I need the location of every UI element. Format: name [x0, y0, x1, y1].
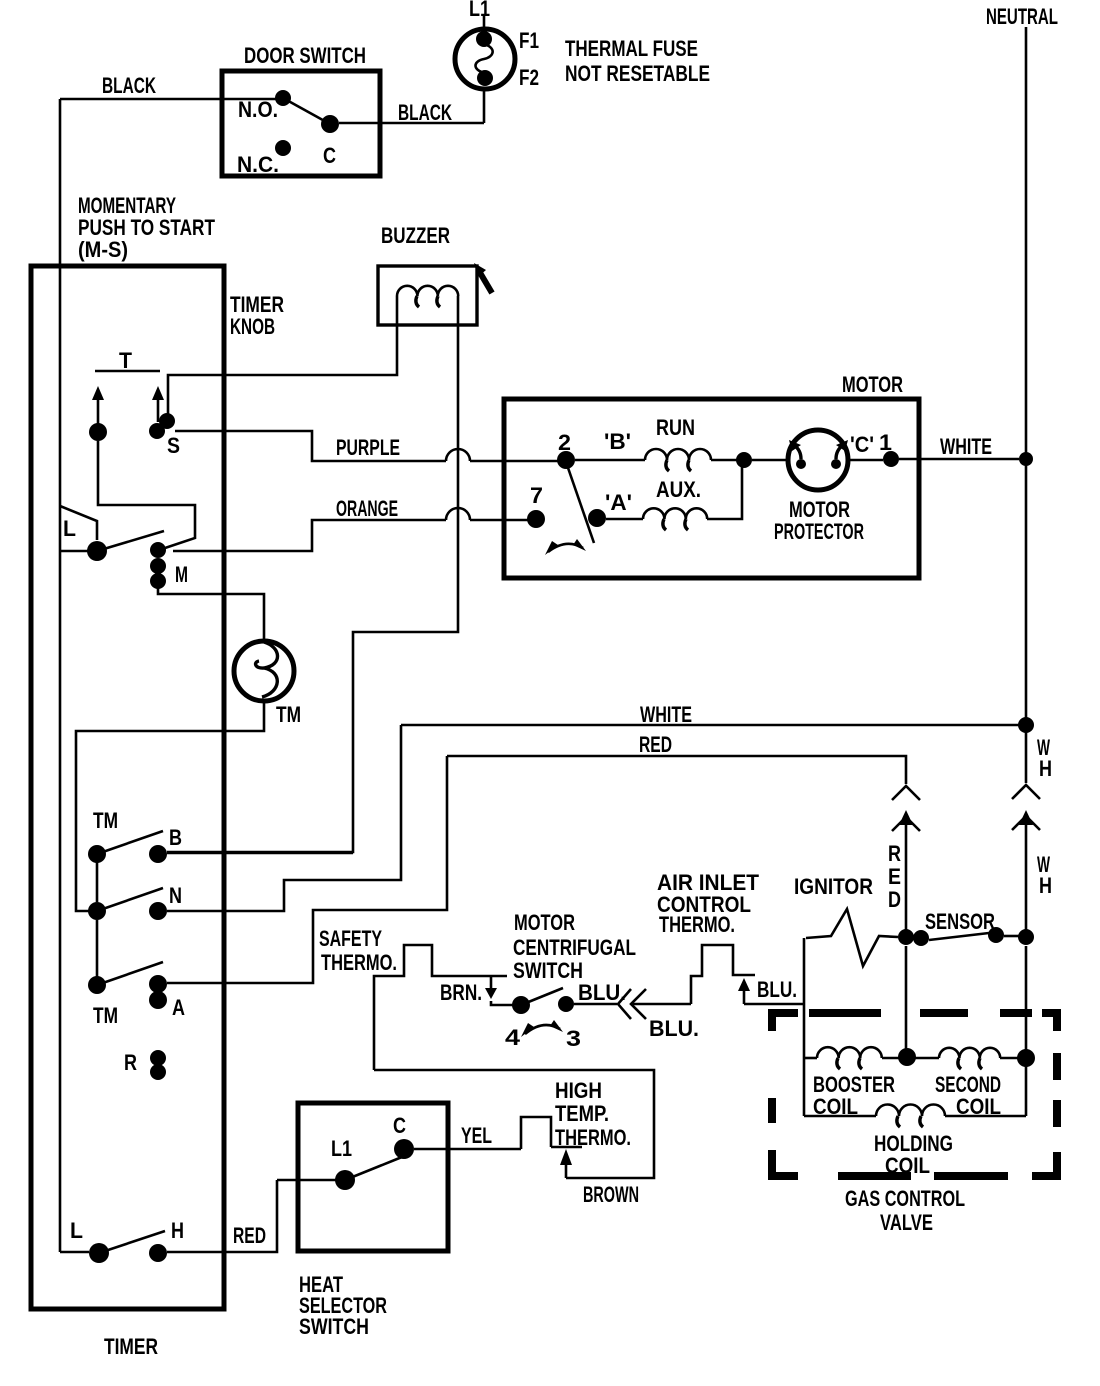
svg-text:1: 1 [879, 430, 892, 455]
connector arrow BRN down [490, 976, 493, 988]
svg-text:SWITCH: SWITCH [513, 958, 583, 983]
node valve junction RED [898, 1048, 916, 1066]
high temp thermostat [521, 1117, 582, 1149]
node L (timer bottom) [89, 1243, 109, 1263]
svg-text:C: C [393, 1113, 406, 1138]
wire purple to motor 2 [470, 460, 558, 463]
connector chevron RED upper [892, 786, 920, 800]
wire L stub bottom [60, 1251, 89, 1254]
svg-text:BUZZER: BUZZER [381, 223, 450, 248]
node valve junction WH [1017, 1049, 1035, 1067]
svg-text:SENSOR: SENSOR [925, 909, 995, 934]
svg-text:PURPLE: PURPLE [336, 435, 400, 460]
node N.C. [275, 140, 291, 156]
wire BRN elbow to contact 4 [491, 1001, 513, 1005]
svg-text:AUX.: AUX. [656, 477, 701, 502]
svg-text:H: H [1039, 873, 1052, 898]
switch blade centrifugal [521, 988, 563, 1005]
switch blade door switch [283, 98, 330, 124]
svg-text:ORANGE: ORANGE [336, 496, 398, 521]
wire B contact link [96, 862, 99, 902]
svg-text:L: L [70, 1218, 83, 1243]
buzzer striker arrowhead [474, 263, 486, 277]
wire booster to junction [882, 1057, 899, 1060]
svg-text:NEUTRAL: NEUTRAL [986, 4, 1058, 29]
node contact 3 [558, 996, 574, 1012]
svg-text:'A': 'A' [605, 490, 632, 515]
wire N link down [96, 920, 99, 977]
wire YEL [414, 1148, 521, 1151]
timer contact TM-B blade [97, 831, 163, 854]
svg-text:N.C.: N.C. [237, 152, 279, 177]
svg-text:VALVE: VALVE [880, 1210, 933, 1235]
node WH sensor junction [1018, 929, 1034, 945]
svg-text:'C': 'C' [850, 432, 874, 457]
wire WHITE main [401, 724, 1026, 727]
node S lower [149, 423, 165, 439]
sensor element [929, 933, 989, 940]
connector arrow BLU up [738, 978, 750, 991]
wire valve bottom left [804, 1115, 876, 1118]
node F2 [477, 70, 493, 86]
node TM-A left [88, 976, 106, 994]
connector arrow RED lower [899, 810, 913, 825]
node M stack [150, 542, 166, 558]
svg-text:L: L [63, 516, 76, 541]
wire valve right side [1025, 1066, 1028, 1116]
node C (heat selector) [394, 1139, 414, 1159]
wire H to heat selector [167, 1180, 277, 1252]
svg-text:A: A [172, 995, 185, 1020]
svg-text:7: 7 [530, 483, 543, 508]
node motor terminal 7 [527, 510, 545, 528]
svg-text:F1: F1 [519, 28, 539, 53]
svg-text:TEMP.: TEMP. [555, 1101, 609, 1126]
svg-text:L1: L1 [469, 0, 490, 21]
coil AUX [643, 508, 707, 519]
buzzer striker arm [479, 271, 492, 293]
wire 3 to BLU connector [574, 1003, 617, 1006]
svg-text:S: S [167, 433, 180, 458]
wire M to timer motor [76, 585, 264, 911]
wire hop orange over buzzer leg [446, 508, 470, 520]
node contact 4 [512, 996, 530, 1014]
motor blade travel arc [548, 544, 583, 552]
coil BOOSTER [817, 1047, 882, 1058]
wire L stub [60, 550, 88, 553]
wire orange to motor 7 [470, 519, 528, 522]
svg-text:R: R [124, 1050, 137, 1075]
wire L1 stub [483, 14, 486, 29]
wire A to RED [167, 756, 447, 983]
gas control valve dashed box [772, 1013, 1057, 1176]
svg-text:KNOB: KNOB [230, 314, 275, 339]
timer contact TM-A blade [97, 962, 163, 985]
node N.O. [275, 90, 291, 106]
svg-text:4: 4 [505, 1025, 521, 1050]
wire BLACK L1 feed top [60, 98, 276, 101]
node sensor right [988, 927, 1004, 943]
node H (timer bottom) [149, 1244, 167, 1262]
wire buzzer left leg to S [168, 296, 397, 414]
svg-text:D: D [888, 887, 901, 912]
wire valve bottom right [945, 1115, 1026, 1118]
node plunger dot [89, 423, 107, 441]
wire protector to C [848, 459, 883, 462]
door switch DS1 box [222, 71, 380, 176]
node F1 [476, 31, 492, 47]
wire B to buzzer leg [167, 852, 353, 855]
fuse element s-curve [476, 44, 493, 73]
motor protector circle [788, 430, 848, 490]
safety thermostat [374, 945, 507, 1070]
wire 2 to RUN [575, 459, 645, 462]
svg-text:IGNITOR: IGNITOR [794, 874, 873, 899]
wire M to ORANGE [173, 520, 446, 551]
node RED-ignitor junction [898, 929, 914, 945]
wire hop purple over buzzer leg [446, 449, 470, 461]
wire AUX up to junction [707, 466, 742, 519]
svg-text:TM: TM [93, 808, 118, 833]
svg-text:H: H [1039, 756, 1052, 781]
connector arrow NEUTRAL lower [1019, 810, 1033, 825]
node N [149, 902, 167, 920]
wire junction to protector [752, 459, 788, 462]
connector chevrons BLU [618, 989, 646, 1019]
node sensor left [913, 930, 929, 946]
svg-text:TIMER: TIMER [104, 1334, 158, 1359]
svg-text:MOTOR: MOTOR [514, 910, 575, 935]
svg-text:C: C [323, 143, 336, 168]
switch blade momentary [97, 531, 164, 551]
thermal fuse F circle [455, 29, 515, 89]
wire NEUTRAL vertical upper [1025, 27, 1028, 783]
svg-text:RED: RED [233, 1223, 266, 1248]
svg-text:COIL: COIL [885, 1153, 930, 1178]
svg-text:NOT RESETABLE: NOT RESETABLE [565, 61, 710, 86]
wire RED into L1 [277, 1179, 336, 1182]
wire WHITE motor to neutral [899, 458, 1019, 461]
plunger arrow left [97, 399, 100, 425]
svg-text:WHITE: WHITE [640, 702, 692, 727]
svg-text:BRN.: BRN. [440, 980, 482, 1005]
air inlet thermostat [691, 945, 755, 1004]
svg-text:PROTECTOR: PROTECTOR [774, 519, 864, 544]
timer contact TM-N blade [97, 888, 163, 911]
wire second coil to WH junction [1000, 1057, 1018, 1060]
svg-text:BLU.: BLU. [757, 977, 797, 1002]
svg-text:THERMAL FUSE: THERMAL FUSE [565, 36, 698, 61]
svg-text:BLACK: BLACK [398, 100, 452, 125]
centrifugal blade travel arc [525, 1025, 560, 1034]
heat selector switch box [298, 1103, 448, 1251]
svg-text:HIGH: HIGH [555, 1078, 602, 1103]
wire plunger to M contact [98, 441, 195, 549]
wire BLU to air inlet thermo [633, 1003, 691, 1006]
coil RUN [645, 449, 711, 460]
wire WH drop [1025, 816, 1028, 1052]
svg-text:THERMO.: THERMO. [659, 912, 735, 937]
svg-text:2: 2 [558, 430, 571, 455]
svg-text:T: T [119, 348, 133, 373]
node motor junction [736, 452, 752, 468]
wire booster row left [804, 1057, 817, 1060]
plunger arrow right [157, 399, 160, 422]
svg-text:'B': 'B' [604, 429, 631, 454]
connector chevron NEUTRAL upper [1012, 785, 1040, 799]
wire RUN to junction [711, 459, 737, 462]
svg-text:H: H [171, 1218, 184, 1243]
wire BROWN return [374, 1070, 654, 1178]
node TM-B left [88, 845, 106, 863]
svg-text:N.O.: N.O. [238, 97, 278, 122]
node TM-N left [88, 902, 106, 920]
svg-text:RED: RED [639, 732, 672, 757]
buzzer coil [397, 286, 458, 296]
wire N to WHITE [167, 725, 401, 911]
svg-text:THERMO.: THERMO. [321, 950, 397, 975]
node R spare [150, 1050, 166, 1066]
svg-text:RUN: RUN [656, 415, 695, 440]
svg-text:BLACK: BLACK [102, 73, 156, 98]
switch blade timer L-H [99, 1231, 165, 1253]
node L (momentary) [87, 541, 107, 561]
wire BLU into valve [744, 1003, 804, 1006]
coil HOLDING [876, 1105, 945, 1117]
node L1 (heat selector) [335, 1170, 355, 1190]
switch blade heat selector [345, 1157, 402, 1180]
node S upper [159, 413, 175, 429]
switch blade motor 2-A [566, 462, 594, 543]
svg-text:E: E [888, 864, 901, 889]
wire junction to second coil [915, 1057, 939, 1060]
coil SECOND [939, 1048, 1000, 1058]
svg-text:L1: L1 [331, 1136, 352, 1161]
wire A to AUX [606, 518, 643, 521]
motor protector contacts [796, 459, 806, 469]
svg-text:MOTOR: MOTOR [842, 372, 903, 397]
ignitor zigzag element [806, 909, 898, 966]
svg-text:WHITE: WHITE [940, 434, 992, 459]
svg-text:SWITCH: SWITCH [299, 1314, 369, 1339]
wire RED main [447, 756, 906, 784]
momentary actuator flag [60, 506, 97, 540]
connector arrow BROWN up [560, 1149, 572, 1165]
wire sensor to WH line [1004, 935, 1019, 938]
node motor terminal C1 [883, 451, 899, 467]
svg-text:BLU.: BLU. [649, 1016, 699, 1041]
svg-text:YEL: YEL [461, 1123, 492, 1148]
timer motor symbol [256, 642, 278, 697]
svg-text:R: R [888, 841, 901, 866]
svg-text:B: B [169, 825, 182, 850]
ignitor leg / valve left edge [803, 938, 806, 1116]
buzzer box [378, 266, 477, 325]
node neutral junction at motor [1019, 452, 1033, 466]
motor box [504, 399, 919, 578]
node A [149, 975, 167, 993]
svg-text:M: M [175, 562, 188, 587]
svg-text:DOOR SWITCH: DOOR SWITCH [244, 43, 366, 68]
node motor terminal 2 [557, 451, 575, 469]
svg-text:GAS CONTROL: GAS CONTROL [845, 1186, 965, 1211]
svg-text:CENTRIFUGAL: CENTRIFUGAL [513, 935, 636, 960]
node motor terminal A [588, 509, 606, 527]
wire S to PURPLE [175, 431, 446, 461]
svg-text:N: N [169, 883, 182, 908]
timer box [31, 266, 224, 1309]
svg-text:TM: TM [276, 702, 301, 727]
svg-text:TM: TM [93, 1003, 118, 1028]
buzzer coil tail 1 [416, 296, 419, 307]
wire BLACK door to fuse [339, 91, 484, 123]
node B [149, 845, 167, 863]
svg-text:BROWN: BROWN [583, 1182, 639, 1207]
svg-text:3: 3 [566, 1026, 581, 1051]
wire L line vertical [59, 99, 62, 1252]
momentary push-to-start T bar [95, 370, 160, 373]
svg-text:(M-S): (M-S) [78, 237, 128, 262]
node C (door switch) [321, 115, 339, 133]
svg-text:SAFETY: SAFETY [319, 926, 382, 951]
timer motor TM circle [234, 641, 294, 701]
wire buzzer right leg down [167, 296, 458, 852]
wire RED into valve [905, 946, 908, 1052]
wire RED drop to sensor node [905, 817, 908, 930]
node neutral junction WHITE [1018, 717, 1034, 733]
buzzer coil tail 2 [437, 296, 440, 307]
svg-text:F2: F2 [519, 65, 539, 90]
